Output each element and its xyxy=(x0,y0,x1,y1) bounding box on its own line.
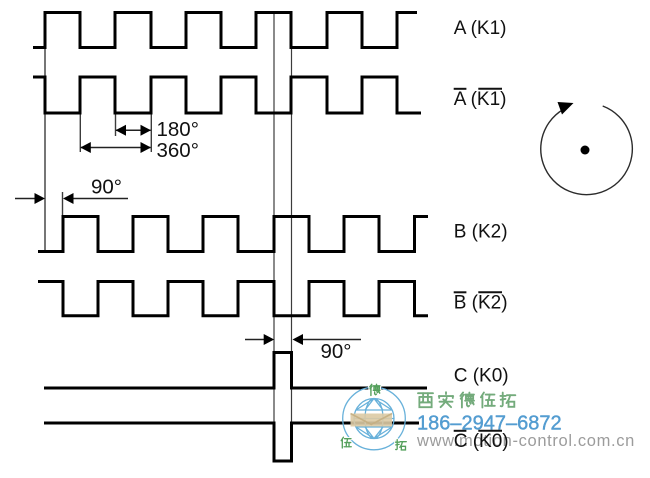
svg-text:C (K0): C (K0) xyxy=(454,431,509,452)
waveform A xyxy=(33,13,417,48)
extension line x=80 (360 deg start) xyxy=(79,114,81,152)
label A-bar (K1-bar) xyxy=(454,89,507,110)
label B-bar (K2-bar) xyxy=(454,292,508,313)
extension line x=115 (180 deg start) xyxy=(115,114,117,136)
svg-text:360°: 360° xyxy=(157,139,199,162)
waveform C-bar with index pulse xyxy=(44,423,419,461)
svg-text:90°: 90° xyxy=(321,340,352,363)
dimension 90 deg bottom xyxy=(245,334,361,345)
dimension 90 deg top xyxy=(15,193,128,204)
label C-bar (K0-bar) xyxy=(454,431,509,452)
watermark envelope xyxy=(351,414,393,427)
svg-text:180°: 180° xyxy=(157,118,199,141)
svg-text:C (K0): C (K0) xyxy=(454,366,509,387)
svg-text:90°: 90° xyxy=(91,176,122,199)
rotation arrowhead xyxy=(558,102,574,115)
watermark seal characters xyxy=(341,384,406,450)
svg-text:A (K1): A (K1) xyxy=(454,18,507,39)
dimension 360 deg xyxy=(80,142,151,153)
extension line x=45 (A first rise) xyxy=(44,49,46,251)
watermark company name xyxy=(418,392,515,407)
svg-text:A (K1): A (K1) xyxy=(454,89,507,110)
svg-text:B (K2): B (K2) xyxy=(454,222,508,243)
waveform B-bar xyxy=(38,282,428,316)
extension line x=151 (180/360 deg end) xyxy=(150,114,152,152)
waveform B xyxy=(38,217,428,252)
svg-text:B (K2): B (K2) xyxy=(454,293,508,314)
reference line right (A fall / C pulse end) xyxy=(291,12,293,423)
waveform A-bar xyxy=(33,77,421,113)
dimension 180 deg xyxy=(116,125,152,136)
rotation direction arc xyxy=(541,106,633,195)
extension line x=63 (B first rise) xyxy=(62,192,64,215)
waveform C with index pulse xyxy=(44,353,427,389)
reference line left (B rise / C pulse start) xyxy=(273,12,275,423)
watermark globe logo xyxy=(343,387,406,450)
svg-text:www.motion-control.com.cn: www.motion-control.com.cn xyxy=(416,432,635,450)
center dot xyxy=(581,146,590,155)
